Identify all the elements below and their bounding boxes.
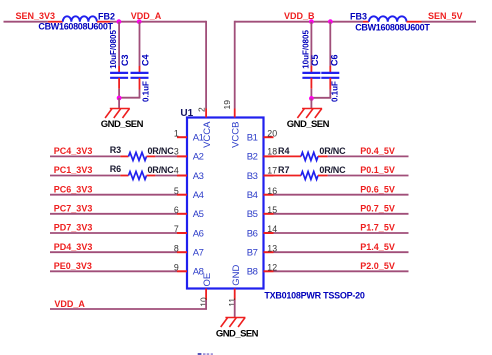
pin number 20 — [267, 128, 277, 138]
label C3 — [120, 54, 130, 66]
value 10uF/0805 (C3) — [109, 30, 118, 69]
label U1 — [180, 108, 193, 119]
pin name A2 — [193, 152, 204, 163]
wire stem to ground (right) — [310, 98, 312, 108]
wire P1.7_5V — [274, 232, 409, 234]
pin number 14 — [267, 224, 277, 234]
wire FB3 to SEN_5V — [422, 21, 477, 23]
partial page text (cut off) — [198, 353, 213, 355]
resistor R6 — [120, 172, 155, 180]
svg-text:A6: A6 — [193, 228, 204, 239]
svg-text:SEN_5V: SEN_5V — [428, 11, 463, 21]
pin 14 stub — [264, 232, 274, 234]
svg-text:CBW160808U600T: CBW160808U600T — [38, 22, 113, 32]
svg-text:A4: A4 — [193, 190, 204, 201]
svg-text:PC7_3V3: PC7_3V3 — [54, 204, 93, 214]
pin 15 stub — [264, 213, 274, 215]
pin 18 stub — [264, 155, 274, 157]
wire P0.7_5V — [274, 213, 409, 215]
svg-text:CBW160808U600T: CBW160808U600T — [355, 22, 430, 32]
svg-text:FB3: FB3 — [350, 11, 367, 21]
svg-text:SEN_3V3: SEN_3V3 — [16, 11, 56, 21]
pin name VCCA — [202, 121, 213, 148]
svg-text:P1.7_5V: P1.7_5V — [360, 223, 395, 233]
ferrite bead FB2 — [48, 16, 110, 21]
svg-text:R4: R4 — [278, 146, 290, 156]
svg-text:C5: C5 — [310, 54, 320, 66]
resistor R4 — [274, 152, 328, 160]
resistor R3 — [120, 152, 155, 160]
pin name GND — [231, 265, 242, 286]
pin 6 stub — [177, 213, 187, 215]
pin number 1 — [174, 128, 179, 138]
svg-text:GND_SEN: GND_SEN — [216, 328, 259, 339]
capacitor C4 — [131, 22, 149, 98]
svg-text:0R/NC: 0R/NC — [319, 146, 346, 156]
capacitor C3 — [110, 22, 128, 98]
svg-text:U1: U1 — [180, 108, 193, 119]
wire stem to ground (left) — [118, 98, 120, 109]
svg-text:B1: B1 — [247, 133, 258, 144]
svg-text:P1.4_5V: P1.4_5V — [360, 242, 395, 252]
pin name B1 — [247, 133, 258, 144]
pin number 2 — [197, 107, 207, 112]
pin number 8 — [174, 243, 179, 253]
net label PE0_3V3 — [54, 261, 92, 271]
svg-text:0R/NC: 0R/NC — [148, 146, 175, 156]
value CBW160808U600T (FB3) — [355, 22, 430, 32]
node junction C5 bottom — [309, 96, 314, 101]
svg-text:B7: B7 — [247, 248, 258, 259]
op-amp U1 body — [187, 118, 264, 289]
svg-text:P0.1_5V: P0.1_5V — [360, 165, 395, 175]
svg-text:19: 19 — [222, 100, 232, 110]
svg-text:VDD_A: VDD_A — [131, 11, 162, 21]
resistor R7 — [274, 172, 328, 180]
pin name VCCB — [230, 121, 241, 147]
pin number 3 — [174, 146, 179, 156]
pin 3 stub — [177, 155, 187, 157]
wire PE0_3V3 — [50, 270, 177, 272]
pin 19 VCCB stub — [234, 109, 236, 118]
wire C4 bottom to C3 bottom — [118, 97, 140, 99]
value 10uF/0805 (C5) — [301, 30, 310, 69]
svg-text:PE0_3V3: PE0_3V3 — [54, 261, 92, 271]
svg-text:OE: OE — [202, 273, 213, 287]
net label P1.7_5V — [360, 223, 395, 233]
svg-text:20: 20 — [267, 128, 277, 138]
svg-text:B3: B3 — [247, 171, 258, 182]
label GND_SEN (left) — [101, 119, 144, 130]
ground GND_SEN (left) — [105, 109, 130, 119]
svg-text:VDD_A: VDD_A — [54, 299, 85, 309]
wire P2.0_5V — [274, 270, 409, 272]
pin name A8 — [193, 267, 204, 278]
wire SEN_3V3 rail — [4, 21, 48, 23]
pin number 13 — [267, 243, 277, 253]
svg-text:P2.0_5V: P2.0_5V — [360, 261, 395, 271]
pin 12 stub — [264, 270, 274, 272]
wire C6 bottom to C5 bottom — [311, 97, 332, 99]
svg-text:P0.7_5V: P0.7_5V — [360, 204, 395, 214]
wire pin 11 to ground — [234, 300, 236, 318]
svg-text:B8: B8 — [247, 267, 258, 278]
node junction C5 top — [309, 19, 314, 24]
svg-text:FB2: FB2 — [98, 11, 115, 21]
svg-text:B2: B2 — [247, 152, 258, 163]
label GND_SEN (bottom) — [216, 328, 259, 339]
wire PC4_3V3 — [50, 155, 120, 157]
pin 2 VCCA stub — [205, 109, 207, 118]
svg-text:0.1uF: 0.1uF — [141, 81, 150, 102]
value 0R/NC (R7) — [319, 165, 346, 175]
pin 5 stub — [177, 194, 187, 196]
pin name A7 — [193, 248, 204, 259]
node junction C3 top — [117, 19, 122, 24]
pin name B2 — [247, 152, 258, 163]
label C5 — [310, 54, 320, 66]
wire pin 10 to VDD_A — [50, 300, 206, 309]
net label P0.1_5V — [360, 165, 395, 175]
pin 4 stub — [177, 175, 187, 177]
capacitor C6 — [321, 22, 339, 98]
label C4 — [140, 54, 150, 66]
wire P0.4_5V — [328, 155, 409, 157]
svg-text:B6: B6 — [247, 228, 258, 239]
net label P0.4_5V — [360, 146, 395, 156]
svg-text:3: 3 — [174, 146, 179, 156]
svg-text:R6: R6 — [110, 164, 122, 174]
value 0.1uF (C4) — [141, 81, 150, 102]
node junction C4 top — [137, 19, 142, 24]
wire P1.4_5V — [274, 251, 409, 253]
svg-text:A8: A8 — [193, 267, 204, 278]
pin 9 stub — [177, 270, 187, 272]
svg-text:PC1_3V3: PC1_3V3 — [54, 165, 93, 175]
pin number 17 — [267, 166, 277, 176]
node junction C3 bottom — [117, 96, 122, 101]
svg-text:GND: GND — [231, 265, 242, 286]
pin name A3 — [193, 171, 204, 182]
pin 1 stub — [177, 136, 187, 138]
pin number 10 — [198, 297, 208, 307]
wire P0.1_5V — [328, 175, 409, 177]
svg-text:VCCA: VCCA — [202, 121, 213, 148]
net label VDD_B — [284, 11, 315, 21]
svg-text:2: 2 — [197, 107, 207, 112]
pin number 16 — [267, 186, 277, 196]
pin name B3 — [247, 171, 258, 182]
svg-text:A5: A5 — [193, 209, 204, 220]
label FB2 — [98, 11, 115, 21]
capacitor C5 — [302, 22, 320, 99]
pin 10 OE stub — [205, 289, 207, 301]
pin number 4 — [174, 166, 179, 176]
pin number 18 — [267, 146, 277, 156]
svg-text:B4: B4 — [247, 190, 258, 201]
net label P2.0_5V — [360, 261, 395, 271]
wire P0.6_5V — [274, 194, 409, 196]
net label VDD_A (top) — [131, 11, 162, 21]
svg-text:PC4_3V3: PC4_3V3 — [54, 146, 93, 156]
svg-text:PD4_3V3: PD4_3V3 — [54, 242, 93, 252]
net label P1.4_5V — [360, 242, 395, 252]
pin name OE — [202, 273, 213, 287]
pin number 5 — [174, 186, 179, 196]
svg-text:GND_SEN: GND_SEN — [287, 119, 330, 130]
node junction C6 top — [328, 19, 333, 24]
svg-text:A2: A2 — [193, 152, 204, 163]
value CBW160808U600T (FB2) — [38, 22, 113, 32]
net label P0.7_5V — [360, 204, 395, 214]
label R3 — [110, 145, 122, 155]
value 0R/NC (R3) — [148, 146, 175, 156]
ferrite bead FB3 — [363, 16, 422, 21]
svg-text:10uF/0805: 10uF/0805 — [109, 30, 118, 69]
svg-text:A3: A3 — [193, 171, 204, 182]
pin name A5 — [193, 209, 204, 220]
svg-text:1: 1 — [174, 128, 179, 138]
pin name A6 — [193, 228, 204, 239]
net label SEN_3V3 — [16, 11, 56, 21]
ground GND_SEN (right) — [297, 109, 322, 119]
pin number 15 — [267, 205, 277, 215]
svg-text:GND_SEN: GND_SEN — [101, 119, 144, 130]
pin 16 stub — [264, 194, 274, 196]
svg-text:A1: A1 — [193, 133, 204, 144]
svg-text:VCCB: VCCB — [230, 121, 241, 147]
svg-text:PD7_3V3: PD7_3V3 — [54, 223, 93, 233]
net label PC1_3V3 — [54, 165, 93, 175]
pin number 7 — [174, 224, 179, 234]
pin name B6 — [247, 228, 258, 239]
pin number 12 — [267, 263, 277, 273]
svg-text:P0.6_5V: P0.6_5V — [360, 184, 395, 194]
net label PD4_3V3 — [54, 242, 93, 252]
svg-text:10uF/0805: 10uF/0805 — [301, 30, 310, 69]
label C6 — [330, 54, 340, 66]
pin name A4 — [193, 190, 204, 201]
pin 20 stub — [264, 136, 274, 138]
pin 13 stub — [264, 251, 274, 253]
svg-text:0R/NC: 0R/NC — [148, 165, 175, 175]
ground GND_SEN (bottom) — [221, 318, 246, 328]
svg-text:B5: B5 — [247, 209, 258, 220]
wire PD7_3V3 — [50, 232, 177, 234]
pin name B4 — [247, 190, 258, 201]
pin 11 GND stub — [234, 289, 236, 301]
svg-text:R7: R7 — [278, 165, 290, 175]
svg-text:0.1uF: 0.1uF — [331, 81, 340, 102]
wire PC1_3V3 — [50, 175, 120, 177]
net label PC4_3V3 — [54, 146, 93, 156]
label R6 — [110, 164, 122, 174]
net label VDD_A (bottom) — [54, 299, 85, 309]
wire R6 to pin — [155, 175, 177, 177]
label FB3 — [350, 11, 367, 21]
pin number 19 — [222, 100, 232, 110]
wire FB2 to VCCA — [110, 21, 206, 23]
svg-text:P0.4_5V: P0.4_5V — [360, 146, 395, 156]
value 0R/NC (R4) — [319, 146, 346, 156]
svg-text:C6: C6 — [330, 54, 340, 66]
wire PC7_3V3 — [50, 213, 177, 215]
wire VDD_A down to pin 2 — [205, 21, 207, 109]
svg-text:C4: C4 — [140, 54, 150, 66]
value 0R/NC (R6) — [148, 165, 175, 175]
pin 7 stub — [177, 232, 187, 234]
pin 8 stub — [177, 251, 187, 253]
net label P0.6_5V — [360, 184, 395, 194]
pin number 9 — [174, 263, 179, 273]
net label PC6_3V3 — [54, 184, 93, 194]
wire PD4_3V3 — [50, 251, 177, 253]
pin number 11 — [227, 298, 237, 307]
svg-text:A7: A7 — [193, 248, 204, 259]
value TXB0108PWR TSSOP-20 — [264, 290, 365, 300]
svg-text:TXB0108PWR TSSOP-20: TXB0108PWR TSSOP-20 — [264, 290, 365, 300]
label GND_SEN (right) — [287, 119, 330, 130]
pin name B5 — [247, 209, 258, 220]
label R4 — [278, 146, 290, 156]
svg-text:0R/NC: 0R/NC — [319, 165, 346, 175]
pin name A1 — [193, 133, 204, 144]
net label SEN_5V — [428, 11, 463, 21]
svg-text:PC6_3V3: PC6_3V3 — [54, 184, 93, 194]
wire VCCB up and right rail — [235, 21, 363, 109]
svg-text:C3: C3 — [120, 54, 130, 66]
svg-text:4: 4 — [174, 166, 179, 176]
net label PC7_3V3 — [54, 204, 93, 214]
value 0.1uF (C6) — [331, 81, 340, 102]
svg-text:R3: R3 — [110, 145, 122, 155]
pin name B8 — [247, 267, 258, 278]
pin 17 stub — [264, 175, 274, 177]
wire R3 to pin — [155, 155, 177, 157]
pin number 6 — [174, 205, 179, 215]
svg-text:17: 17 — [267, 166, 277, 176]
pin name B7 — [247, 248, 258, 259]
label R7 — [278, 165, 290, 175]
net label PD7_3V3 — [54, 223, 93, 233]
svg-text:18: 18 — [267, 146, 277, 156]
wire PC6_3V3 — [50, 194, 177, 196]
